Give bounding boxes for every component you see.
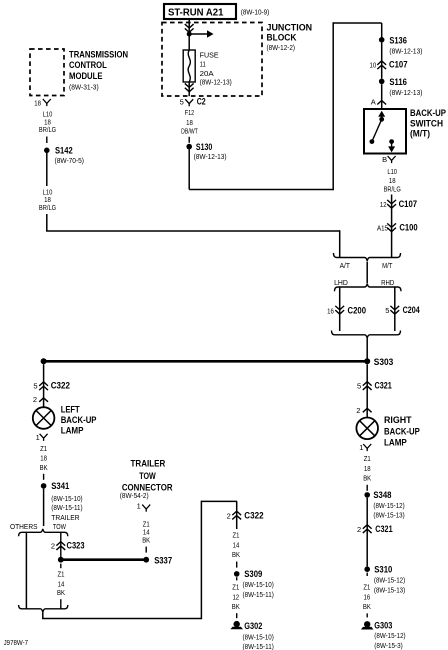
svg-text:(8W-12-13): (8W-12-13) — [389, 88, 422, 97]
svg-text:5: 5 — [180, 98, 184, 107]
svg-text:TOW: TOW — [53, 522, 67, 531]
svg-text:18: 18 — [40, 454, 47, 463]
svg-text:C200: C200 — [348, 305, 367, 315]
svg-text:BACK-UP: BACK-UP — [61, 415, 97, 425]
svg-text:OTHERS: OTHERS — [10, 522, 38, 531]
svg-text:18: 18 — [186, 118, 193, 127]
svg-text:2: 2 — [227, 511, 231, 520]
svg-text:(8W-12-13): (8W-12-13) — [194, 152, 227, 161]
svg-text:LAMP: LAMP — [61, 425, 84, 435]
svg-text:S116: S116 — [389, 77, 407, 87]
svg-text:BK: BK — [363, 602, 371, 611]
svg-text:Z1: Z1 — [233, 530, 240, 539]
svg-text:BK: BK — [142, 535, 150, 544]
svg-text:A/T: A/T — [340, 261, 351, 270]
svg-text:(8W-54-2): (8W-54-2) — [120, 493, 149, 500]
svg-text:F12: F12 — [185, 108, 194, 117]
svg-text:(8W-10-9): (8W-10-9) — [241, 7, 270, 16]
svg-text:BACK-UP: BACK-UP — [410, 108, 446, 118]
svg-text:L10: L10 — [387, 167, 397, 176]
svg-text:B: B — [382, 155, 387, 164]
svg-text:(8W-12-13): (8W-12-13) — [200, 77, 233, 86]
svg-text:C322: C322 — [244, 510, 263, 520]
svg-text:1: 1 — [36, 433, 40, 442]
svg-text:C2: C2 — [197, 97, 206, 107]
svg-text:A: A — [371, 97, 376, 106]
svg-text:10: 10 — [370, 60, 377, 69]
svg-text:18: 18 — [364, 464, 371, 473]
svg-text:(8W-15-12): (8W-15-12) — [374, 631, 406, 640]
svg-text:TRAILER: TRAILER — [131, 459, 166, 469]
svg-text:BLOCK: BLOCK — [267, 33, 297, 43]
svg-text:S130: S130 — [196, 142, 212, 152]
svg-text:M/T: M/T — [382, 261, 393, 270]
svg-text:LHD: LHD — [334, 278, 348, 287]
svg-text:S136: S136 — [389, 35, 407, 45]
svg-text:(8W-15-11): (8W-15-11) — [243, 590, 275, 599]
svg-text:BK: BK — [232, 550, 240, 559]
svg-text:1: 1 — [137, 501, 141, 510]
svg-text:(8W-12-13): (8W-12-13) — [389, 47, 422, 56]
svg-text:BK: BK — [40, 463, 48, 472]
svg-text:S337: S337 — [154, 555, 172, 565]
svg-text:J978W-7: J978W-7 — [4, 638, 29, 647]
svg-text:C323: C323 — [67, 541, 85, 551]
svg-text:RIGHT: RIGHT — [384, 415, 412, 425]
svg-text:G302: G302 — [244, 621, 262, 631]
svg-text:LEFT: LEFT — [61, 405, 80, 415]
svg-text:5: 5 — [357, 381, 361, 390]
svg-text:G303: G303 — [374, 620, 392, 630]
svg-text:16: 16 — [327, 306, 334, 315]
svg-text:S142: S142 — [55, 146, 73, 156]
svg-text:TRAILER: TRAILER — [51, 513, 80, 522]
svg-text:BR/LG: BR/LG — [39, 125, 56, 134]
svg-text:Z1: Z1 — [363, 583, 370, 592]
svg-text:14: 14 — [233, 540, 240, 549]
svg-text:C107: C107 — [399, 199, 418, 209]
svg-text:(8W-15-11): (8W-15-11) — [243, 642, 275, 650]
svg-text:(8W-12-2): (8W-12-2) — [267, 43, 296, 52]
svg-text:(8W-15-10): (8W-15-10) — [51, 494, 83, 503]
svg-text:(8W-15-12): (8W-15-12) — [373, 501, 405, 510]
svg-text:C100: C100 — [399, 222, 417, 232]
svg-text:Z1: Z1 — [40, 444, 47, 453]
svg-text:SWITCH: SWITCH — [410, 118, 443, 128]
svg-text:(8W-31-3): (8W-31-3) — [69, 82, 99, 91]
svg-text:(8W-15-10): (8W-15-10) — [243, 580, 275, 589]
svg-text:S310: S310 — [374, 565, 392, 575]
svg-text:(8W-15-13): (8W-15-13) — [374, 585, 406, 594]
svg-text:18: 18 — [389, 176, 396, 185]
svg-text:18: 18 — [34, 98, 41, 107]
svg-text:2: 2 — [357, 525, 361, 534]
svg-text:(8W-15-13): (8W-15-13) — [373, 510, 405, 519]
svg-text:5: 5 — [385, 306, 389, 315]
svg-text:S348: S348 — [373, 490, 391, 500]
svg-text:12: 12 — [232, 592, 239, 601]
svg-text:14: 14 — [58, 579, 65, 588]
svg-text:(8W-15-3): (8W-15-3) — [374, 641, 403, 650]
svg-text:1: 1 — [359, 443, 363, 452]
svg-text:Z1: Z1 — [364, 454, 371, 463]
svg-text:S309: S309 — [244, 569, 262, 579]
svg-text:ST-RUN A21: ST-RUN A21 — [168, 7, 224, 18]
svg-text:5: 5 — [33, 382, 37, 391]
svg-text:RHD: RHD — [381, 278, 395, 287]
svg-text:C322: C322 — [51, 381, 70, 391]
svg-text:C321: C321 — [375, 380, 392, 390]
svg-text:A15: A15 — [377, 223, 388, 232]
svg-text:TRANSMISSION: TRANSMISSION — [69, 50, 128, 60]
svg-text:(M/T): (M/T) — [410, 128, 430, 138]
svg-text:Z1: Z1 — [58, 570, 65, 579]
svg-text:LAMP: LAMP — [384, 438, 407, 448]
svg-text:BR/LG: BR/LG — [39, 203, 56, 212]
svg-text:Z1: Z1 — [232, 583, 239, 592]
svg-text:C321: C321 — [375, 524, 392, 534]
svg-text:CONNECTOR: CONNECTOR — [122, 483, 173, 493]
svg-text:C204: C204 — [403, 305, 420, 315]
svg-text:12: 12 — [380, 200, 387, 209]
svg-text:S341: S341 — [51, 481, 69, 491]
svg-text:CONTROL: CONTROL — [69, 60, 107, 70]
svg-text:C107: C107 — [389, 60, 408, 70]
svg-text:S303: S303 — [374, 357, 394, 367]
svg-text:DB/WT: DB/WT — [181, 127, 198, 136]
svg-text:FUSE: FUSE — [200, 50, 219, 59]
svg-text:JUNCTION: JUNCTION — [267, 22, 313, 32]
svg-text:BK: BK — [363, 473, 371, 482]
svg-text:BK: BK — [232, 602, 240, 611]
svg-text:TOW: TOW — [139, 471, 156, 481]
svg-text:16: 16 — [364, 592, 371, 601]
svg-text:(8W-15-10): (8W-15-10) — [243, 633, 275, 642]
svg-text:MODULE: MODULE — [69, 71, 103, 81]
svg-text:11: 11 — [200, 60, 206, 69]
svg-text:BK: BK — [57, 588, 65, 597]
svg-text:(8W-70-5): (8W-70-5) — [55, 156, 85, 165]
svg-text:2: 2 — [51, 542, 55, 551]
svg-text:BACK-UP: BACK-UP — [384, 426, 420, 436]
svg-text:(8W-15-12): (8W-15-12) — [374, 575, 406, 584]
svg-text:(8W-15-11): (8W-15-11) — [51, 503, 83, 512]
svg-text:2: 2 — [33, 395, 37, 404]
svg-text:BR/LG: BR/LG — [384, 185, 401, 194]
svg-text:2: 2 — [356, 406, 360, 415]
